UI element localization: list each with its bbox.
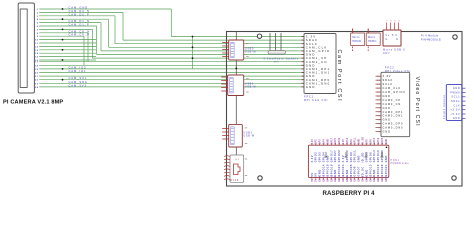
svg-text:GND: GND: [365, 169, 368, 176]
svg-text:USB1: USB1: [245, 83, 254, 86]
svg-text:5V: 5V: [311, 172, 314, 176]
svg-text:Micro: Micro: [352, 36, 360, 39]
svg-text:GPIO25: GPIO25: [350, 164, 353, 177]
svg-text:GND: GND: [319, 169, 322, 176]
svg-text:GP6: GP6: [369, 139, 372, 145]
svg-text:GPIO15: GPIO15: [326, 164, 329, 177]
svg-text:19: 19: [35, 69, 39, 71]
svg-text:15: 15: [377, 76, 380, 78]
svg-text:HDMI1: HDMI1: [368, 40, 377, 43]
svg-text:9: 9: [37, 36, 39, 38]
svg-text:GP23: GP23: [338, 175, 341, 182]
svg-text:18: 18: [35, 65, 39, 67]
svg-text:+3.3V: +3.3V: [450, 109, 460, 112]
svg-text:GPIO18: GPIO18: [330, 164, 333, 177]
svg-text:4: 4: [398, 20, 400, 22]
svg-text:5: 5: [37, 23, 39, 25]
svg-text:ID_SD: ID_SD: [362, 152, 365, 162]
svg-text:6: 6: [37, 26, 39, 28]
svg-text:G: G: [396, 38, 399, 41]
svg-text:POWER scale: POWER scale: [391, 162, 410, 165]
svg-text:7: 7: [379, 108, 381, 110]
svg-text:1: 1: [37, 9, 39, 11]
svg-text:GP20: GP20: [381, 175, 384, 182]
svg-text:GP16: GP16: [377, 175, 380, 182]
svg-text:RASPBERRY PI 4: RASPBERRY PI 4: [323, 190, 376, 197]
svg-text:8: 8: [379, 104, 381, 106]
svg-text:GPIO11: GPIO11: [354, 150, 357, 163]
svg-text:PWM0: PWM0: [450, 91, 460, 94]
svg-text:GPIO6: GPIO6: [369, 152, 372, 163]
svg-text:GP5: GP5: [365, 139, 368, 145]
svg-text:Pi 4 Module: Pi 4 Module: [421, 35, 439, 38]
svg-text:PI CAMERA V2.1 8MP: PI CAMERA V2.1 8MP: [3, 100, 63, 106]
svg-text:5.0: 5.0: [392, 34, 397, 37]
svg-text:GP2: GP2: [315, 139, 318, 145]
svg-text:5V: 5V: [315, 178, 318, 181]
svg-text:GP7: GP7: [358, 176, 361, 182]
svg-text:3.5mmAudio Jackets: 3.5mmAudio Jackets: [264, 57, 299, 60]
svg-text:GND: GND: [373, 176, 376, 182]
svg-text:15: 15: [35, 57, 39, 59]
svg-text:Cam Port CSI: Cam Port CSI: [336, 50, 342, 103]
svg-text:10: 10: [377, 96, 380, 98]
svg-text:GND: GND: [373, 169, 376, 176]
svg-text:GND: GND: [334, 176, 337, 182]
svg-text:GND: GND: [326, 155, 329, 162]
svg-text:13: 13: [377, 84, 380, 86]
svg-text:CN7: CN7: [383, 52, 390, 55]
svg-text:12: 12: [35, 46, 39, 48]
svg-text:GP10: GP10: [346, 137, 349, 144]
svg-text:GPIO21: GPIO21: [385, 164, 388, 177]
svg-text:3.3V: 3.3V: [311, 155, 314, 163]
svg-text:5: 5: [379, 116, 381, 118]
svg-text:GP12: GP12: [369, 175, 372, 182]
svg-text:GPIO13: GPIO13: [373, 150, 376, 163]
svg-text:GPIO26: GPIO26: [381, 150, 384, 163]
svg-text:5V: 5V: [311, 178, 314, 181]
svg-text:5V: 5V: [315, 172, 318, 176]
svg-text:11: 11: [377, 92, 380, 94]
svg-text:Micro USB-C: Micro USB-C: [383, 49, 406, 52]
svg-text:GND: GND: [453, 87, 460, 90]
svg-text:7: 7: [37, 29, 39, 31]
svg-text:GP22: GP22: [338, 137, 341, 144]
svg-text:GPIO14: GPIO14: [323, 164, 326, 177]
svg-text:USB-M: USB-M: [245, 51, 256, 54]
svg-text:GPIO16: GPIO16: [377, 164, 380, 177]
svg-text:GND: GND: [385, 139, 388, 145]
svg-text:GP8: GP8: [354, 176, 357, 182]
svg-text:3.3V: 3.3V: [311, 139, 314, 145]
svg-text:17: 17: [35, 62, 39, 64]
svg-text:10: 10: [35, 40, 39, 42]
svg-text:SCL1: SCL1: [451, 96, 460, 99]
svg-text:GP14: GP14: [323, 175, 326, 182]
svg-text:GND: GND: [346, 169, 349, 176]
svg-text:GPIO12: GPIO12: [369, 164, 372, 177]
svg-text:U2: U2: [236, 159, 240, 161]
svg-text:Micro: Micro: [368, 36, 376, 39]
svg-text:GP9: GP9: [350, 139, 353, 145]
svg-text:GPIO24: GPIO24: [342, 164, 345, 177]
svg-text:GPIO2: GPIO2: [315, 152, 318, 163]
svg-text:GPIO8: GPIO8: [354, 166, 357, 177]
svg-text:GP26: GP26: [381, 137, 384, 144]
svg-text:Video Port CSI: Video Port CSI: [414, 77, 420, 127]
svg-text:PIN4MODULE: PIN4MODULE: [421, 39, 441, 42]
svg-text:3: 3: [394, 20, 396, 22]
svg-text:V+: V+: [386, 34, 390, 37]
svg-text:G: G: [386, 38, 389, 41]
svg-text:GP24: GP24: [342, 175, 345, 182]
svg-text:GND: GND: [346, 176, 349, 182]
svg-text:3: 3: [37, 16, 39, 18]
svg-text:12: 12: [377, 88, 380, 90]
svg-text:3.3V: 3.3V: [342, 139, 345, 145]
svg-text:ID_S: ID_S: [362, 176, 365, 182]
svg-text:GP11: GP11: [354, 137, 357, 144]
svg-text:JP1: JP1: [274, 62, 280, 64]
svg-text:GP3: GP3: [319, 139, 322, 145]
svg-text:11: 11: [35, 43, 39, 45]
svg-text:GPIO19: GPIO19: [377, 150, 380, 163]
svg-text:GPIO22: GPIO22: [338, 150, 341, 163]
svg-text:23: 23: [35, 83, 39, 85]
svg-text:GP13: GP13: [373, 137, 376, 144]
svg-text:GND: GND: [334, 169, 337, 176]
svg-text:GND: GND: [326, 139, 329, 145]
svg-text:2: 2: [379, 127, 381, 129]
svg-text:ID_SC: ID_SC: [362, 166, 365, 176]
svg-text:13: 13: [35, 50, 39, 52]
svg-text:GPIO10: GPIO10: [346, 150, 349, 163]
svg-text:ID_SD: ID_SD: [362, 137, 365, 145]
svg-text:GND: GND: [385, 155, 388, 162]
svg-text:22: 22: [35, 80, 39, 82]
svg-text:GND: GND: [306, 85, 316, 89]
svg-text:40-pin module: 40-pin module: [443, 94, 446, 119]
svg-text:2: 2: [37, 12, 39, 14]
svg-text:HDR1: HDR1: [391, 159, 400, 162]
svg-text:GP18: GP18: [330, 175, 333, 182]
svg-text:6: 6: [379, 112, 381, 114]
svg-text:USB-M: USB-M: [245, 86, 256, 89]
svg-text:GPIO7: GPIO7: [358, 166, 361, 177]
svg-text:USB-M: USB-M: [244, 135, 255, 138]
svg-text:14: 14: [377, 80, 380, 82]
svg-text:3.3V: 3.3V: [342, 155, 345, 163]
svg-text:+5.0V: +5.0V: [450, 113, 460, 116]
svg-text:GPIO23: GPIO23: [338, 164, 341, 177]
svg-text:RJ45: RJ45: [230, 179, 239, 182]
svg-text:GP4: GP4: [323, 139, 326, 145]
svg-text:GP27: GP27: [334, 137, 337, 144]
svg-text:GND: GND: [358, 139, 361, 145]
svg-text:21: 21: [35, 76, 39, 78]
svg-text:GP19: GP19: [377, 137, 380, 144]
svg-text:GP21: GP21: [385, 175, 388, 182]
svg-text:9: 9: [379, 100, 381, 102]
svg-text:HDMI0: HDMI0: [352, 40, 361, 43]
svg-text:20: 20: [35, 73, 39, 75]
svg-text:GND: GND: [319, 176, 322, 182]
svg-text:GPIO9: GPIO9: [350, 152, 353, 163]
svg-text:GP15: GP15: [326, 175, 329, 182]
svg-text:GND: GND: [453, 117, 460, 120]
svg-text:1: 1: [386, 20, 388, 22]
svg-text:4: 4: [379, 119, 381, 121]
svg-text:2: 2: [390, 20, 392, 22]
svg-text:8: 8: [37, 33, 39, 35]
svg-text:GND: GND: [365, 176, 368, 182]
svg-text:USB2: USB2: [244, 132, 253, 135]
svg-text:USB0: USB0: [245, 48, 254, 51]
svg-text:GP17: GP17: [330, 137, 333, 144]
svg-text:1: 1: [379, 131, 381, 133]
svg-text:GPIO27: GPIO27: [334, 150, 337, 163]
svg-text:SDA1: SDA1: [451, 100, 460, 103]
svg-text:GPIO17: GPIO17: [330, 150, 333, 163]
svg-text:GPIO20: GPIO20: [381, 164, 384, 177]
svg-text:GND: GND: [358, 155, 361, 162]
svg-text:GPIO3: GPIO3: [319, 152, 322, 163]
svg-text:CLK: CLK: [453, 104, 460, 107]
svg-text:3: 3: [379, 123, 381, 125]
svg-text:FPC2: FPC2: [385, 66, 394, 69]
svg-text:GP25: GP25: [350, 175, 353, 182]
